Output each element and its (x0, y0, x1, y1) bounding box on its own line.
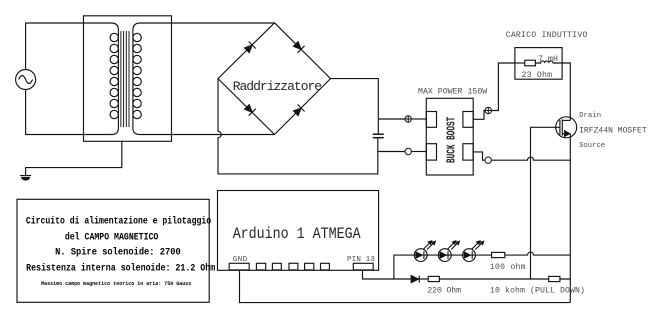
rail A pin13 to source (394, 278, 570, 280)
capacitor C1 (373, 134, 384, 138)
arduino pin GND (229, 263, 249, 270)
svg-text:BUCK BOOST: BUCK BOOST (445, 117, 459, 163)
svg-text:Drain: Drain (579, 112, 601, 120)
wire bridge negative to capacitor bottom (218, 79, 378, 174)
svg-text:Source: Source (579, 142, 605, 150)
LED L3 (463, 241, 484, 262)
svg-text:N. Spire solenoide: 2700: N. Spire solenoide: 2700 (55, 247, 181, 259)
wire secondary bottom to bridge bottom vertex (140, 134, 275, 136)
LED L2 (438, 241, 459, 262)
terminal plus output (485, 107, 492, 114)
load inductor 7mH (535, 61, 552, 63)
svg-text:Massimo campo magnetico teoric: Massimo campo magnetico teorico in aria:… (41, 280, 192, 287)
wire LED row (hop over gate) (394, 252, 570, 279)
buck pin tr (463, 112, 473, 128)
diode D-TR (294, 42, 305, 53)
wire terminal to buck bl pin (411, 151, 426, 153)
resistor 100 ohm (492, 252, 505, 257)
wire AC bottom to transformer primary (26, 90, 112, 135)
wire PIN13 (363, 270, 394, 279)
bridge outline (218, 23, 331, 135)
transformer primary winding (110, 23, 118, 135)
info box (17, 199, 209, 302)
load resistor 23 Ohm (525, 60, 536, 66)
ground (20, 176, 31, 180)
wire secondary top to bridge top vertex (140, 22, 275, 24)
svg-text:Resistenza interna solenoide:: Resistenza interna solenoide: 21.2 Ohm (26, 262, 215, 274)
arduino pin 13 (353, 263, 373, 270)
svg-text:Circuito di alimentazione e pi: Circuito di alimentazione e pilotaggio (26, 215, 211, 227)
svg-text:PIN 13: PIN 13 (347, 256, 375, 264)
wire transformer center tap to ground (26, 141, 122, 175)
wire source down to gnd rail (569, 134, 571, 303)
load box carico (515, 48, 562, 80)
svg-text:del CAMPO MAGNETICO: del CAMPO MAGNETICO (65, 232, 159, 244)
svg-text:23 Ohm: 23 Ohm (522, 70, 553, 80)
svg-text:GND: GND (233, 256, 248, 264)
wire terminal to buck tl pin (411, 118, 426, 120)
wire into load (515, 62, 525, 64)
transformer T1 box (84, 16, 172, 142)
wire plus branch to terminal (378, 118, 405, 120)
diode D-BR (294, 105, 305, 116)
svg-text:IRFZ44N MOSFET: IRFZ44N MOSFET (579, 126, 647, 135)
svg-text:7 mH: 7 mH (538, 55, 558, 64)
resistor 220 Ohm (428, 276, 439, 281)
wire gate down to rail (531, 127, 560, 279)
terminal plus input (405, 116, 412, 123)
diode D1 (411, 276, 419, 283)
buck pin br (463, 144, 473, 160)
diode D-BL (245, 105, 256, 116)
wire buck minus output (473, 152, 485, 160)
resistor 10 kohm (549, 276, 560, 281)
LED L1 (414, 241, 435, 262)
wire buck plus output (473, 111, 485, 120)
wire minus branch to terminal (378, 151, 405, 153)
arduino pin 4 (289, 263, 298, 270)
svg-text:CARICO INDUTTIVO: CARICO INDUTTIVO (506, 31, 588, 40)
svg-text:100 ohm: 100 ohm (490, 262, 526, 272)
terminal minus input (405, 148, 411, 154)
diode D-TL (245, 42, 256, 53)
wire plus output to load (491, 63, 515, 111)
svg-text:Arduino 1 ATMEGA: Arduino 1 ATMEGA (233, 225, 361, 243)
svg-text:220 Ohm: 220 Ohm (427, 285, 461, 295)
wire GND rail (240, 270, 571, 303)
buck pin bl (426, 144, 436, 160)
wire bridge positive to capacitor top (331, 79, 379, 134)
arduino pin 6 (321, 263, 330, 270)
buck pin tl (426, 112, 436, 128)
wire minus output to source (hop over gate) (491, 157, 570, 160)
MOSFET Q1 (556, 117, 577, 138)
Arduino box (218, 191, 379, 271)
arduino pin 2 (256, 263, 265, 270)
arduino pin 5 (305, 263, 314, 270)
transformer core (121, 31, 129, 127)
wire load to drain (553, 63, 570, 120)
transformer secondary winding (133, 23, 141, 135)
svg-text:Raddrizzatore: Raddrizzatore (233, 79, 322, 94)
svg-text:10 kohm (PULL DOWN): 10 kohm (PULL DOWN) (490, 285, 585, 295)
arduino pin 3 (272, 263, 281, 270)
wire AC top to transformer primary (26, 23, 112, 70)
buck converter U1 box (426, 98, 473, 175)
svg-text:MAX POWER 150W: MAX POWER 150W (418, 88, 487, 97)
terminal minus output (485, 157, 491, 163)
AC source V1 (16, 70, 36, 90)
